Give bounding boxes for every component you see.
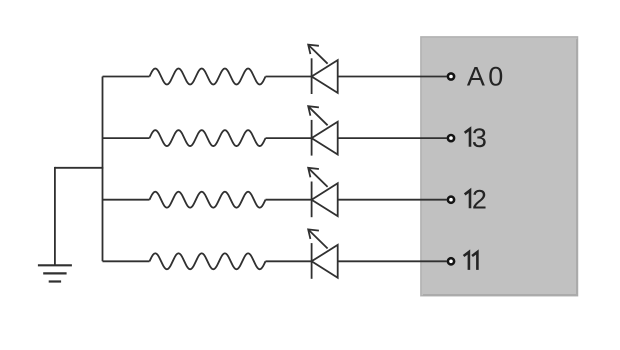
svg-text:2: 2 — [472, 185, 487, 215]
LED D4 — [308, 229, 338, 278]
pin label 13 — [465, 129, 470, 147]
LED D1 — [308, 45, 338, 94]
wire (bus to resistor R4, row 11) — [103, 260, 150, 262]
resistor R4 — [150, 253, 266, 269]
node 13 terminal — [448, 135, 454, 141]
wire (LED D2 to pin 13) — [338, 137, 447, 139]
resistor R2 — [150, 130, 266, 146]
pin label 12 — [465, 190, 470, 208]
node A0 terminal — [448, 73, 454, 79]
wire (LED D4 to pin 11) — [338, 260, 447, 262]
svg-text:3: 3 — [472, 123, 487, 153]
wire (resistor R3 to LED D3) — [266, 199, 312, 201]
node 11 terminal — [448, 258, 454, 264]
microcontroller body — [421, 37, 578, 296]
wire (LED D1 to pin A0) — [338, 76, 447, 78]
resistor R1 — [150, 69, 266, 85]
wire (resistor R2 to LED D2) — [266, 137, 312, 139]
wire (LED D3 to pin 12) — [338, 199, 447, 201]
wire (ground branch horizontal) — [55, 167, 104, 169]
wire (bus to resistor R1, row A0) — [103, 76, 150, 78]
LED D3 — [308, 168, 338, 217]
wire (bus to resistor R2, row 13) — [103, 137, 150, 139]
resistor R3 — [150, 192, 266, 208]
wire (ground stem vertical) — [54, 167, 56, 265]
node 12 terminal — [448, 197, 454, 203]
wire (resistor R4 to LED D4) — [266, 260, 312, 262]
wire (ground bus vertical) — [102, 77, 104, 262]
ground — [38, 265, 72, 281]
pin label 11 — [464, 252, 469, 270]
LED D2 — [308, 106, 338, 155]
wire (resistor R1 to LED D1) — [266, 76, 312, 78]
wire (bus to resistor R3, row 12) — [103, 199, 150, 201]
